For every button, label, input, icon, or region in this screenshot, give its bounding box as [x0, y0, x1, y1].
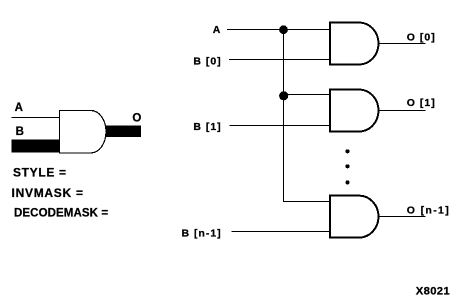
ellipsis dot 2 — [346, 164, 350, 168]
wire O[n-1] output — [379, 216, 426, 218]
svg-text:DECODEMASK =: DECODEMASK = — [14, 207, 108, 219]
svg-text:X8021: X8021 — [416, 285, 450, 297]
wire B bus input (thick) to demo gate — [12, 140, 60, 153]
wire B[n-1] to gate U3 — [231, 231, 330, 233]
wire O[0] output — [379, 43, 426, 45]
ellipsis dot 3 — [346, 180, 350, 184]
wire B[0] to gate U1 — [229, 59, 330, 61]
svg-text:INVMASK =: INVMASK = — [12, 186, 84, 200]
wire O bus output (thick) from demo gate — [106, 126, 142, 137]
svg-text:A: A — [213, 24, 221, 36]
svg-text:O: O — [132, 113, 141, 125]
svg-text:STYLE =: STYLE = — [13, 166, 66, 180]
wire A input to demo gate — [12, 117, 60, 119]
AND gate demo symbol — [60, 111, 107, 153]
AND gate U2 — [330, 90, 379, 132]
junction dot on A at gate U1 branch — [279, 25, 288, 34]
svg-text:O [n-1]: O [n-1] — [407, 204, 450, 216]
AND gate U1 — [330, 23, 379, 65]
wire vertical A branch — [283, 30, 285, 202]
svg-text:A: A — [15, 102, 23, 114]
svg-text:O [0]: O [0] — [407, 31, 436, 43]
wire A branch elbow to gate U3 — [283, 201, 330, 203]
svg-text:B [0]: B [0] — [193, 55, 221, 67]
svg-text:O [1]: O [1] — [407, 97, 436, 109]
wire O[1] output — [379, 110, 426, 112]
svg-text:B [n-1]: B [n-1] — [181, 227, 221, 239]
AND gate U3 — [330, 196, 379, 238]
wire A branch to gate U2 — [284, 94, 331, 96]
svg-text:B: B — [16, 126, 24, 138]
wire A to gate U1 — [227, 29, 330, 31]
junction dot on A branch at gate U2 — [279, 91, 288, 100]
ellipsis dot 1 — [346, 149, 350, 153]
svg-text:B [1]: B [1] — [193, 121, 221, 133]
wire B[1] to gate U2 — [230, 125, 331, 127]
